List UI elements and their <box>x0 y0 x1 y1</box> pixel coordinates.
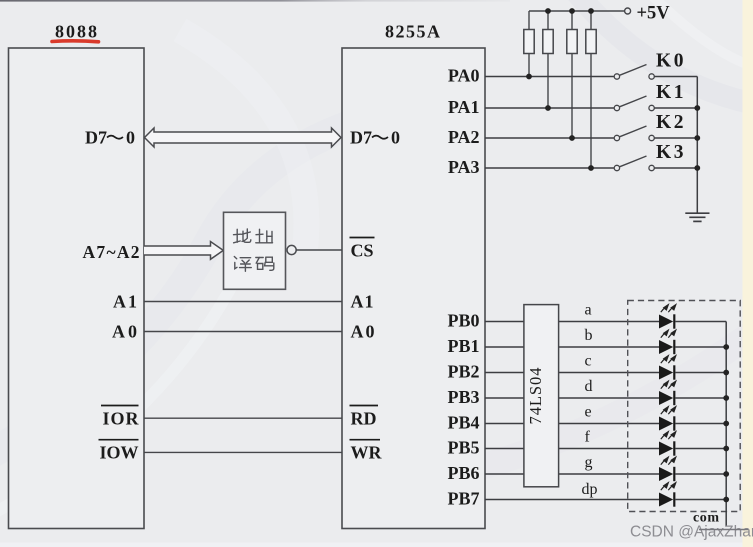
svg-text:f: f <box>585 429 591 446</box>
LED b <box>659 330 676 354</box>
junction node resistor R1 to PA0 <box>526 74 532 80</box>
wire LED common bus <box>725 322 727 527</box>
LED f <box>659 432 676 456</box>
wire 74LS04 out b to LED <box>559 346 660 348</box>
svg-text:PA2: PA2 <box>448 127 480 147</box>
svg-text:PB5: PB5 <box>447 438 479 458</box>
junction node resistor R4 to PA3 <box>588 165 594 171</box>
svg-text:dp: dp <box>582 481 598 498</box>
pin label CS (with overline) <box>350 238 375 261</box>
junction node LED common y=347 <box>723 344 729 350</box>
LED display dashed box <box>628 301 741 512</box>
wire PB3 to 74LS04 <box>485 397 524 399</box>
junction node switch bus y=138 <box>694 135 700 141</box>
wire PB2 to 74LS04 <box>485 372 524 374</box>
svg-text:K1: K1 <box>656 82 684 103</box>
svg-text:A7~A2: A7~A2 <box>83 242 140 262</box>
resistor R1 <box>524 11 534 77</box>
junction node LED common y=372.5 <box>723 370 729 376</box>
svg-text:b: b <box>585 327 593 344</box>
wire PA2 to switch K2 <box>485 137 614 139</box>
junction node resistor R3 to PA2 <box>569 135 575 141</box>
wire PB0 to 74LS04 <box>485 321 524 323</box>
svg-text:PB4: PB4 <box>447 413 479 433</box>
junction node LED common y=398 <box>723 395 729 401</box>
ground symbol <box>685 213 709 221</box>
+5V terminal circle <box>625 8 631 14</box>
wire 74LS04 out g to LED <box>559 473 660 475</box>
pin label IOR (overline) <box>101 406 140 429</box>
svg-text:K3: K3 <box>656 142 684 163</box>
LED e <box>659 407 676 431</box>
wire switch common bus <box>696 77 698 213</box>
svg-text:CS: CS <box>351 241 374 261</box>
wire LED c cathode to common <box>675 372 726 374</box>
pin label D7~0 on 8255A <box>350 128 400 148</box>
svg-text:A0: A0 <box>351 322 375 342</box>
resistor R3 <box>567 11 577 138</box>
svg-text:PB1: PB1 <box>447 336 479 356</box>
PPI box 8255A <box>342 48 485 529</box>
svg-text:K2: K2 <box>656 112 684 133</box>
inverter chip 74LS04 <box>524 305 559 487</box>
pin label RD (overline) <box>350 406 379 429</box>
wire LED dp cathode to common <box>675 499 726 501</box>
wire LED g cathode to common <box>675 473 726 475</box>
svg-text:A0: A0 <box>112 322 137 342</box>
svg-text:D7: D7 <box>350 128 372 148</box>
junction node on +5V rail x=591 <box>588 8 594 14</box>
wire PA3 to switch K3 <box>485 167 614 169</box>
LED dp <box>659 483 676 507</box>
address decoder box (dizhi yima) <box>224 212 286 289</box>
chip label 8088 <box>52 21 99 42</box>
wire A1 <box>144 301 342 303</box>
CPU box 8088 <box>9 48 145 529</box>
svg-text:+5V: +5V <box>637 4 671 24</box>
wire A0 <box>144 331 342 333</box>
wire LED e cathode to common <box>675 423 726 425</box>
switch K0 <box>614 65 697 80</box>
svg-text:g: g <box>585 454 593 471</box>
svg-text:e: e <box>585 404 592 421</box>
junction node switch bus y=168 <box>694 165 700 171</box>
LED a <box>659 305 676 329</box>
junction node LED common y=474 <box>723 471 729 477</box>
junction node on +5V rail x=572 <box>569 8 575 14</box>
address bus arrow A7~A2 <box>144 242 223 260</box>
LED c <box>659 356 676 380</box>
right beige margin strip <box>743 0 753 547</box>
svg-text:K0: K0 <box>656 50 684 71</box>
wire IOW to WR <box>144 451 342 453</box>
svg-text:PA0: PA0 <box>448 65 480 85</box>
inverter bubble at decoder output <box>287 245 296 254</box>
LED d <box>659 381 676 405</box>
wire PB4 to 74LS04 <box>485 423 524 425</box>
+5V power rail <box>529 10 625 12</box>
svg-text:IOR: IOR <box>103 409 140 429</box>
svg-text:WR: WR <box>351 443 383 463</box>
wire 74LS04 out c to LED <box>559 372 660 374</box>
svg-text:PB6: PB6 <box>447 463 479 483</box>
junction node LED common y=499.5 <box>723 497 729 503</box>
switch K2 <box>614 126 697 141</box>
svg-text:a: a <box>585 302 592 319</box>
svg-text:0: 0 <box>126 128 135 148</box>
pin label D7~0 on 8088 <box>85 128 135 148</box>
resistor R4 <box>586 11 596 168</box>
pin label WR (overline) <box>350 440 383 463</box>
wire 74LS04 out d to LED <box>559 397 660 399</box>
svg-text:PB2: PB2 <box>447 362 479 382</box>
wire LED d cathode to common <box>675 397 726 399</box>
wire PB7 (dp) direct to LED <box>485 499 660 501</box>
wire LED f cathode to common <box>675 448 726 450</box>
junction node LED common y=448.5 <box>723 446 729 452</box>
wire IOR to RD <box>144 417 342 419</box>
wire 74LS04 out a to LED <box>559 321 660 323</box>
wire PA1 to switch K1 <box>485 107 614 109</box>
svg-text:CSDN @AjaxZhan: CSDN @AjaxZhan <box>630 524 753 541</box>
svg-text:A1: A1 <box>351 292 374 312</box>
svg-text:PA1: PA1 <box>448 97 480 117</box>
junction node resistor R2 to PA1 <box>545 105 551 111</box>
data bus double arrow D7~0 <box>145 128 342 147</box>
svg-text:0: 0 <box>391 128 400 148</box>
junction node on +5V rail x=548 <box>545 8 551 14</box>
svg-text:PB0: PB0 <box>447 311 479 331</box>
switch K3 <box>614 156 697 171</box>
resistor R2 <box>543 11 553 108</box>
svg-text:PB7: PB7 <box>447 489 479 509</box>
wire PA0 to switch K0 <box>485 76 614 78</box>
svg-text:8255A: 8255A <box>385 21 440 41</box>
wire 74LS04 out f to LED <box>559 448 660 450</box>
wire LED b cathode to common <box>675 346 726 348</box>
LED g <box>659 457 676 481</box>
svg-text:D7: D7 <box>85 128 107 148</box>
svg-text:PA3: PA3 <box>448 157 480 177</box>
wire decoder to CS <box>296 249 342 251</box>
junction node LED common y=423.5 <box>723 421 729 427</box>
pin label IOW (overline) <box>99 440 139 463</box>
svg-text:A1: A1 <box>113 292 137 312</box>
wire LED a cathode to common <box>675 321 726 323</box>
svg-text:IOW: IOW <box>99 443 138 463</box>
switch K1 <box>614 96 697 111</box>
svg-text:d: d <box>585 378 593 395</box>
wire 74LS04 out e to LED <box>559 423 660 425</box>
svg-text:RD: RD <box>351 409 377 429</box>
svg-text:c: c <box>585 353 592 370</box>
svg-text:74LS04: 74LS04 <box>526 368 545 425</box>
wire PB6 to 74LS04 <box>485 473 524 475</box>
wire PB1 to 74LS04 <box>485 346 524 348</box>
watermark CSDN <box>630 524 753 541</box>
svg-text:PB3: PB3 <box>447 387 479 407</box>
junction node switch bus y=108 <box>694 105 700 111</box>
wire PB5 to 74LS04 <box>485 448 524 450</box>
